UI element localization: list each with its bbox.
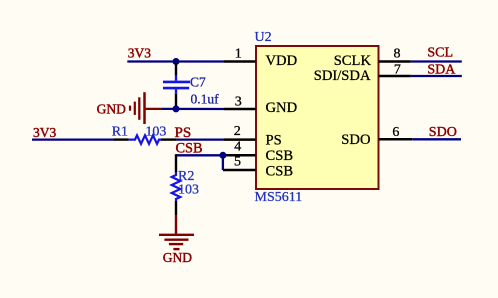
svg-text:CSB: CSB — [266, 148, 294, 164]
wire junction down to pin5 — [222, 155, 224, 170]
wire SCL — [411, 60, 462, 62]
svg-text:SDO: SDO — [341, 132, 370, 148]
svg-text:SDO: SDO — [429, 125, 457, 140]
svg-text:U2: U2 — [255, 30, 272, 45]
C7 lower pin (black) — [175, 94, 177, 107]
svg-text:SDA: SDA — [427, 62, 456, 77]
svg-text:0.1uf: 0.1uf — [191, 91, 220, 106]
C7 top plate — [163, 81, 190, 84]
ground bar 4 smallest — [173, 248, 179, 250]
pin 2 stub — [224, 138, 256, 141]
svg-text:103: 103 — [178, 183, 199, 198]
pin 6 stub — [379, 138, 413, 141]
C7 lower lead (blue) — [175, 89, 177, 94]
ground bar 4 tallest — [143, 92, 146, 124]
R1 left pin (black) — [114, 138, 129, 140]
svg-text:103: 103 — [145, 125, 166, 140]
svg-text:1: 1 — [235, 47, 242, 62]
svg-text:CSB: CSB — [176, 141, 203, 157]
svg-text:R1: R1 — [112, 125, 128, 140]
pin 8 stub — [379, 60, 411, 63]
svg-text:8: 8 — [394, 46, 401, 61]
ground symbol (bottom) — [159, 235, 194, 249]
ground bar 3 — [138, 97, 140, 120]
R2 top pin (black) — [175, 154, 177, 173]
C7 upper lead (blue) — [175, 76, 177, 81]
wire R1 to pin2 — [177, 138, 224, 140]
pin 7 stub — [379, 75, 411, 78]
R1 zigzag — [129, 135, 161, 144]
svg-text:5: 5 — [234, 154, 241, 169]
pin 4 stub — [224, 154, 256, 157]
node junction CSB — [219, 152, 226, 159]
wire R2 to ground — [175, 216, 177, 234]
svg-text:4: 4 — [234, 140, 241, 155]
svg-text:PS: PS — [175, 125, 192, 141]
IC U2 body (MS5611) — [256, 46, 379, 189]
svg-text:2: 2 — [234, 124, 241, 139]
wire CSB row — [176, 154, 223, 156]
resistor R2 — [172, 154, 181, 216]
svg-text:GND: GND — [163, 250, 192, 265]
svg-text:GND: GND — [97, 101, 126, 116]
R1 right pin (black) — [161, 138, 177, 140]
node junction on VDD wire — [173, 58, 180, 65]
power ground GND (left of C7) — [130, 92, 162, 124]
node junction on GND wire — [173, 105, 180, 112]
ground bar 1 widest — [159, 234, 194, 236]
pin 1 stub — [224, 60, 256, 63]
svg-text:6: 6 — [392, 125, 399, 140]
svg-text:3V3: 3V3 — [33, 125, 56, 140]
ground bar 2 — [134, 102, 136, 115]
capacitor C7 — [163, 63, 190, 108]
svg-text:3: 3 — [235, 94, 242, 109]
svg-text:PS: PS — [266, 132, 282, 148]
svg-text:MS5611: MS5611 — [255, 190, 303, 205]
pin 5 stub — [223, 169, 256, 172]
ground bar 3 — [169, 243, 183, 245]
ground bar 2 — [164, 238, 188, 240]
C7 bottom plate — [163, 87, 189, 90]
svg-text:GND: GND — [266, 100, 298, 116]
wire SDA — [411, 75, 462, 77]
svg-text:CSB: CSB — [266, 164, 294, 180]
svg-text:7: 7 — [394, 63, 401, 78]
ground lead to wire — [145, 108, 163, 110]
wire SDO — [412, 138, 461, 140]
svg-text:VDD: VDD — [266, 53, 298, 69]
R2 zigzag — [172, 173, 181, 201]
svg-text:SCL: SCL — [427, 45, 453, 60]
wire 3V3 to R1 — [32, 138, 115, 140]
R2 bottom pin (black) — [175, 201, 177, 216]
ground bar small — [129, 106, 131, 111]
resistor R1 — [114, 135, 177, 144]
wire 3V3 to pin1 — [127, 60, 224, 62]
C7 upper pin (black) — [175, 63, 177, 76]
svg-text:SCLK: SCLK — [334, 53, 372, 69]
pin 3 stub — [224, 108, 256, 111]
svg-text:C7: C7 — [190, 75, 206, 90]
svg-text:SDI/SDA: SDI/SDA — [314, 68, 371, 84]
svg-text:3V3: 3V3 — [128, 46, 151, 61]
wire GND row to pin3 — [162, 108, 224, 110]
